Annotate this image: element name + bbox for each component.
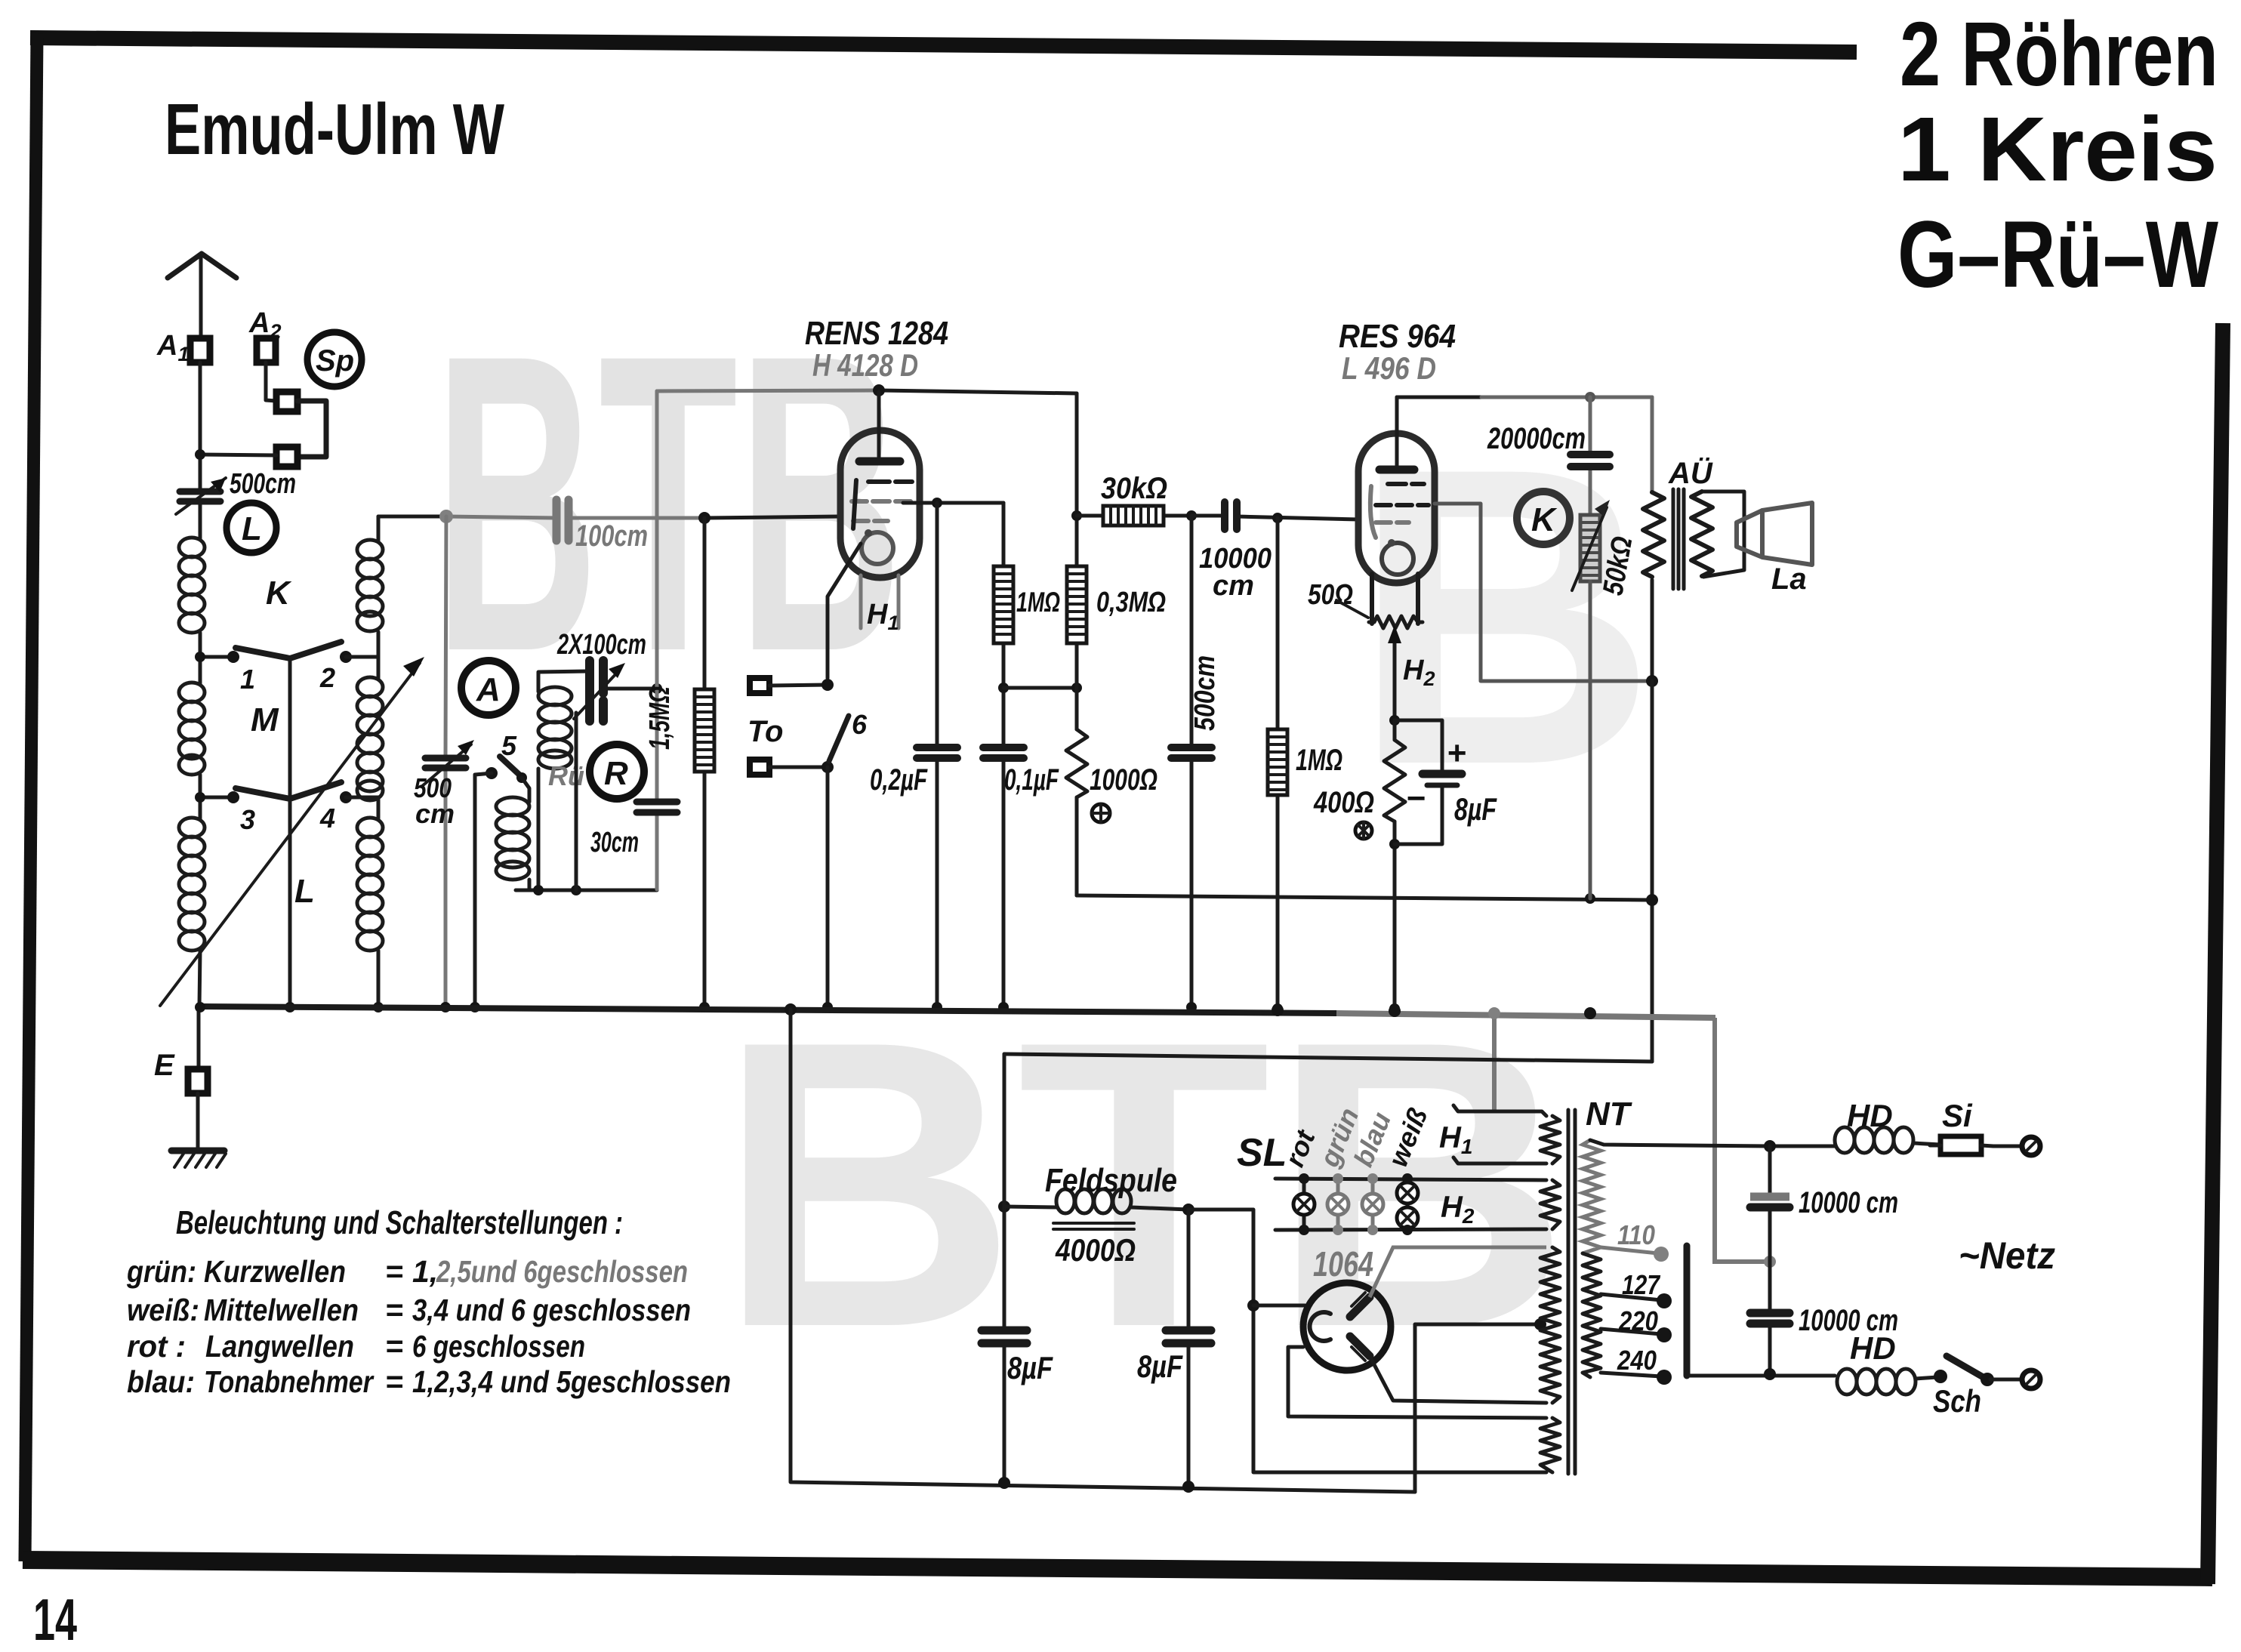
wire feldspule to rectifier <box>1188 1210 1546 1472</box>
capacitor 10000cm lower <box>1750 1262 1789 1374</box>
wire A2 to plug <box>266 362 276 401</box>
svg-text:3,4 und 6 geschlossen: 3,4 und 6 geschlossen <box>412 1293 691 1327</box>
lamp weiss double <box>1397 1173 1418 1235</box>
svg-text:Sp: Sp <box>316 344 354 378</box>
wire 10000cm to tube2 grid <box>1191 516 1359 519</box>
wire Rue coils bottom <box>516 889 657 892</box>
svg-text:−: − <box>1406 780 1426 817</box>
svg-text:2X100cm: 2X100cm <box>556 629 646 661</box>
lamp blau <box>1362 1173 1383 1235</box>
svg-text:=: = <box>385 1329 403 1364</box>
wire 8uF2 riser <box>1187 1210 1191 1487</box>
switch 5 arm <box>500 757 522 777</box>
svg-text:=: = <box>385 1364 403 1399</box>
svg-text:8µF: 8µF <box>1454 791 1497 827</box>
wire 500cm branch <box>445 516 446 1007</box>
svg-text:1MΩ: 1MΩ <box>1016 587 1060 618</box>
wire mains upper <box>1770 1145 1835 1148</box>
main bus chassis <box>199 1006 1336 1013</box>
node tank top <box>439 510 453 523</box>
fuse Si <box>1930 1136 1993 1154</box>
capacitor 100cm <box>556 500 569 541</box>
svg-text:Beleuchtung und Schalterstellu: Beleuchtung und Schalterstellungen : <box>176 1204 623 1241</box>
lamp gruen <box>1327 1173 1349 1235</box>
svg-text:127: 127 <box>1622 1269 1661 1300</box>
border top bar <box>30 38 1857 52</box>
svg-text:4: 4 <box>319 803 335 834</box>
svg-text:100cm: 100cm <box>575 519 648 553</box>
border left bar <box>25 33 37 1561</box>
svg-text:1MΩ: 1MΩ <box>1296 744 1342 777</box>
circle K <box>1517 492 1570 544</box>
svg-text:30kΩ: 30kΩ <box>1101 472 1167 505</box>
svg-text:1: 1 <box>240 664 255 695</box>
lamp rail top <box>1275 1179 1546 1180</box>
wire tube2 top rail <box>1397 396 1481 399</box>
wire primary top lead <box>1590 1140 1770 1146</box>
svg-text:R: R <box>604 755 628 792</box>
wire L coil to bus <box>199 951 200 1007</box>
tube RES964 envelope <box>1358 397 1435 583</box>
wire anode top to HV <box>1370 1247 1546 1297</box>
wire switch6 to bus <box>826 767 830 1007</box>
wire netz gray riser <box>1715 1018 1770 1262</box>
resistor 1,5M ohm <box>695 518 714 1012</box>
wire anode to 0,2uF <box>936 503 939 1007</box>
transformer NT core <box>1568 1110 1575 1474</box>
wire switch5 to bus <box>475 773 492 1007</box>
loudspeaker La <box>1702 492 1812 577</box>
choke HD upper <box>1835 1127 1913 1153</box>
capacitor 30cm <box>637 802 677 812</box>
resistor 1000 ohm <box>1066 688 1087 895</box>
svg-text:400Ω: 400Ω <box>1313 786 1374 819</box>
svg-text:20000cm: 20000cm <box>1487 422 1586 455</box>
svg-text:14: 14 <box>33 1586 77 1652</box>
watermark BTB upper <box>434 267 902 739</box>
winding rectifier filament <box>1540 1418 1560 1472</box>
svg-text:2 Röhren: 2 Röhren <box>1900 2 2218 105</box>
wire grid top rail <box>657 390 879 391</box>
wire tube2 anode <box>1435 504 1652 681</box>
svg-text:8µF: 8µF <box>1137 1348 1183 1384</box>
svg-text:Si: Si <box>1942 1098 1973 1133</box>
tap 110 <box>1601 1247 1669 1262</box>
svg-text:grün:: grün: <box>126 1254 196 1289</box>
resistor 0,3M ohm <box>1067 393 1087 688</box>
wire 1000ohm to speaker return <box>1077 895 1651 900</box>
node feldspule right <box>1182 1204 1194 1216</box>
svg-text:H 4128 D: H 4128 D <box>812 347 918 383</box>
terminal To upper <box>750 678 769 693</box>
svg-text:2: 2 <box>319 662 335 693</box>
winding HV upper <box>1540 1247 1560 1403</box>
svg-text:10000 cm: 10000 cm <box>1799 1186 1898 1219</box>
border bottom bar <box>23 1560 2212 1577</box>
svg-text:To: To <box>748 715 783 748</box>
svg-text:Feldspule: Feldspule <box>1045 1162 1177 1199</box>
svg-text:0,2µF: 0,2µF <box>870 763 928 797</box>
node coupling <box>1186 510 1197 521</box>
capacitor 500cm tuning <box>421 740 474 787</box>
capacitor 0,2uF <box>917 747 957 758</box>
winding H1 <box>1453 1105 1560 1163</box>
switch contact 3 <box>227 791 239 803</box>
switch contact 4 <box>340 791 352 803</box>
tuning coil upper <box>357 540 383 631</box>
svg-text:3: 3 <box>240 804 255 835</box>
wire tuning coil sections <box>377 516 381 1007</box>
svg-text:1,: 1, <box>412 1254 438 1289</box>
circle A <box>461 661 516 715</box>
wire AU return <box>1651 681 1654 1062</box>
svg-text:~Netz: ~Netz <box>1959 1234 2055 1277</box>
svg-text:SL: SL <box>1237 1131 1287 1175</box>
plug jack upper <box>276 392 297 411</box>
svg-text:30cm: 30cm <box>590 827 639 858</box>
svg-text:Langwellen: Langwellen <box>205 1329 354 1364</box>
terminal E <box>154 1007 208 1093</box>
capacitor 8uF first <box>982 1330 1027 1343</box>
winding H2 <box>1540 1180 1560 1229</box>
tube2 filament leads <box>1372 574 1418 624</box>
svg-text:6: 6 <box>852 709 868 740</box>
terminal mains upper <box>2022 1137 2040 1155</box>
node switch1 stub <box>200 655 232 659</box>
supply box left side <box>791 1009 1415 1492</box>
resistor 50 ohm hum <box>1369 616 1423 628</box>
winding primary tapped <box>1583 1140 1601 1377</box>
svg-text:1064: 1064 <box>1313 1244 1373 1284</box>
svg-text:8µF: 8µF <box>1007 1350 1053 1385</box>
resistor 400 ohm <box>1384 720 1405 1014</box>
wire contact4 to tuning coil <box>346 796 378 800</box>
svg-text:Sch: Sch <box>1933 1383 1981 1419</box>
wire A1 down <box>199 362 202 491</box>
svg-text:RES 964: RES 964 <box>1339 318 1456 355</box>
svg-text:2,5und 6geschlossen: 2,5und 6geschlossen <box>436 1254 688 1289</box>
wire K to M <box>199 633 202 683</box>
switch 6 arm <box>829 716 849 761</box>
wire diff cap rotor down <box>575 713 578 890</box>
legend line rot <box>127 1329 585 1364</box>
node 30k junction <box>1071 510 1082 521</box>
lamp rot <box>1293 1173 1315 1235</box>
tube1 filament leads <box>861 575 899 628</box>
wire M to L <box>199 775 202 818</box>
antenna <box>168 254 236 338</box>
capacitor 20000cm <box>1571 397 1610 515</box>
lamp rail bottom <box>1275 1229 1546 1230</box>
capacitor 8uF second <box>1166 1330 1211 1343</box>
wire To lower to contact <box>769 766 828 769</box>
transformer AU secondary <box>1691 492 1712 576</box>
wire cap to coil K <box>199 501 202 538</box>
node grid leak <box>698 512 711 524</box>
svg-text:NT: NT <box>1586 1096 1632 1133</box>
wire cathode to switch6 <box>828 544 861 678</box>
choke HD lower <box>1837 1369 1916 1395</box>
capacitor 2x100cm differential <box>574 661 625 721</box>
svg-text:1000Ω: 1000Ω <box>1090 763 1157 797</box>
voltage selector link <box>1684 1246 1691 1376</box>
svg-text:A: A <box>476 671 501 708</box>
wire tank to grid cap <box>378 515 446 519</box>
tap 240 <box>1601 1370 1672 1385</box>
plug jack lower <box>276 447 297 467</box>
ground <box>171 1093 226 1167</box>
coil M antenna <box>179 683 205 775</box>
symbol circle-star <box>1355 822 1372 839</box>
legend line weiss <box>127 1293 691 1327</box>
terminal A1 <box>190 338 210 362</box>
svg-text:cm: cm <box>415 798 455 829</box>
wire contact2 to tuning coil <box>346 655 378 659</box>
coil Rueckkopplung right <box>538 671 588 890</box>
svg-text:1 Kreis: 1 Kreis <box>1897 97 2218 200</box>
node switch3 stub <box>200 796 232 800</box>
resistor 30k ohm <box>1077 506 1191 525</box>
node feldspule left <box>998 1200 1010 1213</box>
capacitor 0,1uF <box>983 747 1024 758</box>
coil Rueckkopplung left <box>496 778 529 890</box>
wire 8uF1 riser <box>1003 1054 1006 1483</box>
node cathode R <box>1389 715 1400 726</box>
wire heater gray drop <box>1492 1013 1497 1113</box>
wire mains lower <box>1686 1374 1835 1378</box>
svg-text:blau:: blau: <box>127 1364 195 1399</box>
svg-text:Rü: Rü <box>548 760 584 791</box>
switch Sch <box>1934 1356 2022 1386</box>
wire grid cap to tube1 <box>569 516 704 520</box>
svg-text:110: 110 <box>1617 1219 1655 1250</box>
switch arm 1-2 <box>236 642 341 658</box>
svg-text:G–Rü–W: G–Rü–W <box>1897 202 2218 307</box>
circle L <box>227 503 276 553</box>
switch 6 contacts <box>821 679 834 691</box>
svg-text:L: L <box>242 510 262 547</box>
svg-text:M: M <box>251 701 279 738</box>
coil K antenna <box>179 538 205 633</box>
svg-text:500cm: 500cm <box>230 468 296 500</box>
symbol circle-plus <box>1092 804 1110 822</box>
switch 5 contact <box>485 767 498 779</box>
svg-text:+: + <box>1447 735 1466 772</box>
svg-text:1,5MΩ: 1,5MΩ <box>644 686 676 750</box>
svg-text:Emud-Ulm W: Emud-Ulm W <box>165 89 504 170</box>
capacitor 500cm bypass <box>1171 516 1212 1012</box>
svg-text:HD: HD <box>1850 1330 1896 1366</box>
svg-text:220: 220 <box>1618 1305 1658 1336</box>
svg-text:0,1µF: 0,1µF <box>1004 763 1059 797</box>
wire HD lower to switch <box>1916 1377 1937 1379</box>
coil L antenna <box>179 818 205 951</box>
svg-text:K: K <box>266 575 292 612</box>
svg-text:La: La <box>1771 562 1807 596</box>
svg-text:0,3MΩ: 0,3MΩ <box>1096 587 1166 618</box>
tuning coil lower <box>357 818 383 951</box>
rectifier 1064 <box>1303 1283 1391 1370</box>
tuning coil middle <box>357 677 383 800</box>
transformer AU primary <box>1643 397 1664 681</box>
svg-text:AÜ: AÜ <box>1668 456 1713 490</box>
watermark BTB lower <box>717 957 1571 1412</box>
svg-text:4000Ω: 4000Ω <box>1055 1232 1136 1268</box>
Feldspule core lines <box>1053 1223 1134 1229</box>
wire HD to fuse <box>1913 1143 1940 1145</box>
tap 220 <box>1601 1327 1672 1342</box>
transformer AU core <box>1673 489 1684 589</box>
svg-text:RENS 1284: RENS 1284 <box>805 315 948 352</box>
wire feedback riser <box>655 391 659 889</box>
svg-text:L: L <box>294 873 315 910</box>
legend line gruen <box>126 1254 688 1289</box>
svg-text:E: E <box>154 1049 175 1082</box>
wire B+ line <box>1004 1054 1652 1062</box>
wire 1M to 0,3M node <box>1003 686 1077 690</box>
potentiometer 50k ohm <box>1572 500 1610 898</box>
svg-text:6 geschlossen: 6 geschlossen <box>412 1329 585 1364</box>
capacitor 8uF cathode <box>1395 720 1462 844</box>
border right bar <box>2208 323 2223 1584</box>
tuning arrow diagonal <box>160 663 420 1006</box>
switch contact 1 <box>227 651 239 663</box>
wire filament second lead <box>1288 1347 1546 1418</box>
switch contact 2 <box>340 651 352 663</box>
svg-text:Mittelwellen: Mittelwellen <box>204 1293 359 1327</box>
node bus supply box <box>785 1003 797 1016</box>
svg-text:K: K <box>1531 501 1558 538</box>
plug bracket <box>297 401 326 457</box>
terminal mains lower <box>2022 1370 2040 1388</box>
svg-text:5: 5 <box>501 730 517 761</box>
tube RENS1284 envelope <box>840 392 920 578</box>
capacitor 10000cm upper <box>1750 1146 1789 1262</box>
circle Sp <box>307 332 362 387</box>
wire diff cap to riser <box>603 687 657 691</box>
svg-text:240: 240 <box>1617 1345 1657 1376</box>
legend line blau <box>127 1364 731 1399</box>
inductor Feldspule <box>1004 1189 1188 1213</box>
node junction A1 <box>195 449 205 460</box>
svg-text:cm: cm <box>1213 570 1254 602</box>
wire To upper to contact <box>769 685 828 686</box>
svg-text:HD: HD <box>1847 1098 1893 1133</box>
svg-text:weiß:: weiß: <box>127 1293 199 1327</box>
svg-text:500cm: 500cm <box>1189 655 1221 731</box>
resistor 1M ohm AF grid <box>1268 518 1287 1014</box>
arrow hum tap <box>1388 625 1401 720</box>
terminal To lower <box>750 760 769 775</box>
wire rectifier filament feed <box>1253 1304 1305 1308</box>
svg-text:Tonabnehmer: Tonabnehmer <box>204 1364 375 1399</box>
svg-text:=: = <box>385 1293 403 1327</box>
capacitor 10000cm coupling <box>1225 502 1237 529</box>
switch arm 3-4 <box>236 782 341 799</box>
svg-text:=: = <box>385 1254 403 1289</box>
wire tube1 anode <box>903 501 1003 505</box>
wire switch pivot to bus <box>288 658 292 1007</box>
svg-text:rot :: rot : <box>127 1329 186 1364</box>
wire fuse to terminal <box>1993 1145 2022 1148</box>
resistor 1M ohm grid2 <box>994 503 1013 1012</box>
wire junction A1 to lower plug <box>200 455 276 455</box>
terminal A2 <box>257 338 276 362</box>
tap 127 <box>1601 1293 1672 1308</box>
wire HV center tap <box>1415 1324 1539 1492</box>
svg-text:1,2,3,4 und 5geschlossen: 1,2,3,4 und 5geschlossen <box>412 1364 731 1399</box>
wire anode bottom to HV <box>1370 1356 1546 1403</box>
svg-text:L 496 D: L 496 D <box>1342 350 1436 386</box>
capacitor 500cm antenna trimmer <box>176 478 226 514</box>
svg-text:Kurzwellen: Kurzwellen <box>204 1254 346 1289</box>
circle R <box>590 744 644 799</box>
